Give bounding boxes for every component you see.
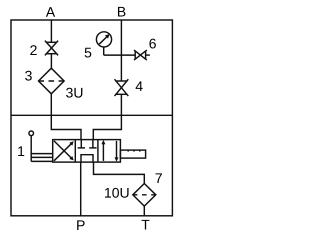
wire port B down to gauge tee and valve 4 — [120, 20, 122, 81]
wire A: filter 3 down, jog right, into valve port A — [51, 94, 81, 140]
wire B: valve 4 down, jog left, into valve port B — [93, 94, 121, 140]
wire gauge to test valve 6 — [104, 54, 136, 56]
position 2 blocked A/B ports — [78, 140, 97, 148]
position 2 P-T bypass — [81, 155, 93, 162]
solenoid pilot circle (electric connection) — [29, 131, 34, 136]
shutoff valve 2 — [45, 41, 58, 56]
label 3U — [66, 88, 82, 98]
shutoff valve 4 — [115, 79, 129, 96]
wire filter 7 to bottom border — [143, 206, 145, 216]
wire port A down to valve 2 — [50, 20, 52, 42]
label 3 — [25, 71, 32, 81]
position 1 crossed arrows — [54, 141, 74, 161]
port label A — [46, 7, 55, 17]
block section divider — [11, 114, 172, 116]
directional valve U1 body — [53, 140, 121, 163]
filter F3 diamond — [39, 68, 65, 94]
wire valve 2 to filter 3 — [50, 54, 52, 68]
position 3 straight arrows — [101, 140, 118, 162]
wire T: valve to filter 7 — [94, 162, 145, 183]
wire P: valve to bottom border — [80, 162, 82, 216]
label 6 — [149, 39, 155, 49]
label 5 — [85, 48, 92, 58]
label 2 — [30, 45, 36, 55]
label 10U — [105, 188, 129, 198]
label 7 — [156, 173, 162, 183]
manifold block outline — [11, 20, 172, 216]
port label P — [77, 220, 84, 230]
port label B — [118, 7, 125, 17]
port label T — [142, 220, 150, 230]
solenoid lead wire — [30, 136, 32, 162]
spring end box of valve 1 — [120, 150, 145, 158]
pressure gauge 5 — [96, 32, 111, 55]
label 1 — [18, 146, 24, 156]
filter F7 diamond — [133, 184, 156, 207]
test valve 6 — [134, 50, 150, 60]
label 4 — [136, 81, 143, 91]
solenoid coil box of valve 1 — [31, 154, 53, 162]
